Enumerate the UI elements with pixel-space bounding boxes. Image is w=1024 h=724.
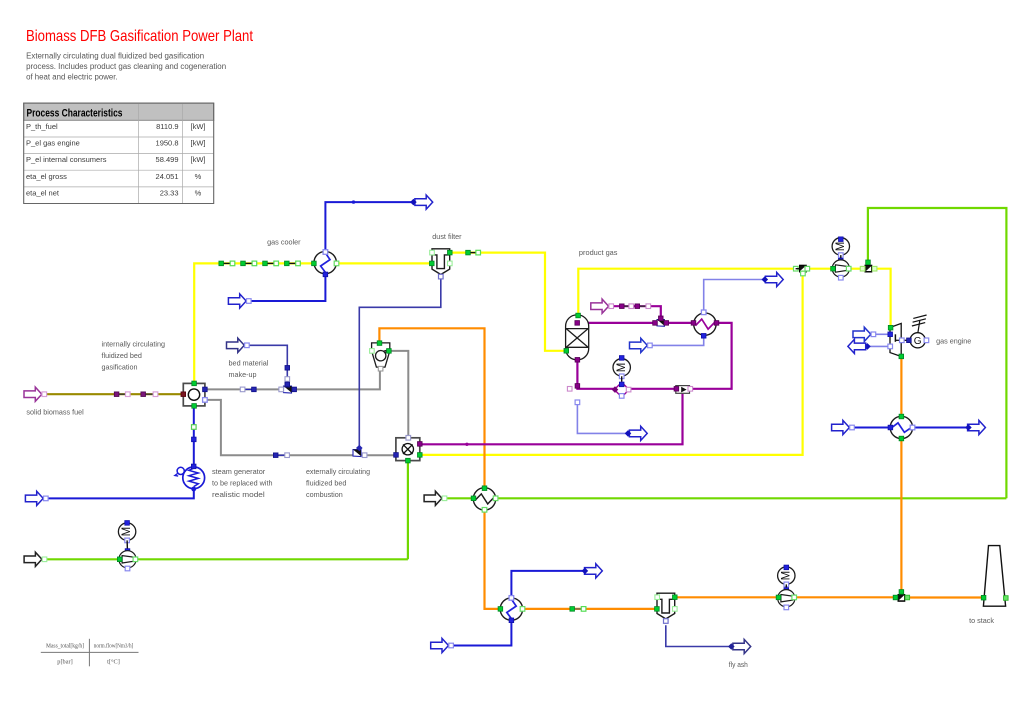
product gas splitter [794, 265, 810, 276]
svg-text:fluidized bed: fluidized bed [306, 479, 346, 488]
svg-text:externally circulating: externally circulating [306, 467, 370, 476]
wire filter1 fines to combustor mixer [359, 279, 441, 449]
wire secondary air through hx1 [444, 497, 1007, 499]
steam generator [175, 464, 205, 491]
flue gas fan with motor M [776, 565, 796, 610]
generator grid symbol [918, 321, 920, 333]
dust filter F1 [432, 249, 450, 275]
cyclone [372, 343, 390, 367]
wire: filter fines navy net [247, 279, 729, 647]
wire filter2 fly ash [666, 625, 729, 646]
arrow: hx3 water inlet [832, 420, 855, 434]
gasifier (internally circulating fluidized bed) [181, 381, 207, 408]
arrow: scrubber hx cooling water outlet [762, 272, 784, 286]
svg-text:realistic model: realistic model [212, 490, 265, 499]
wire gasifier to combustor mixer [205, 400, 396, 455]
arrow: hx2 steam outlet [582, 564, 603, 578]
svg-text:make-up: make-up [229, 370, 257, 379]
wire: water/steam bright blue net [43, 200, 967, 645]
svg-text:M: M [780, 571, 792, 581]
wire scrubber top to compressor row [578, 269, 799, 315]
primary air fan with motor M [117, 521, 137, 571]
wire hx3 water out [913, 427, 968, 429]
arrow: engine jacket water outlet (points left) [848, 339, 871, 353]
stream markers on bed material lines [240, 387, 289, 457]
wire splitter to compressor [807, 268, 832, 270]
arrow: feedwater inlet [25, 491, 48, 505]
svg-text:bed material: bed material [229, 359, 269, 368]
wire mixer to gas engine [873, 269, 891, 328]
bed make-up junction mixer [279, 383, 297, 394]
svg-text:fly ash: fly ash [729, 660, 748, 669]
waypoint dot [465, 443, 468, 446]
wire waste water out [577, 403, 626, 434]
svg-text:Biomass DFB Gasification Power: Biomass DFB Gasification Power Plant [26, 28, 253, 45]
arrow: fly ash outlet [728, 639, 751, 653]
wire junction to stack [905, 596, 983, 598]
arrow: bed material make-up inlet [227, 338, 250, 352]
wire cyclone to combustor top [389, 351, 408, 438]
hx3 engine exhaust cooler [890, 416, 912, 438]
gas cooler HX [314, 251, 336, 273]
wire pump to splitter [629, 388, 675, 390]
dust filter F2 [657, 593, 675, 619]
svg-text:p[bar]: p[bar] [57, 659, 72, 666]
svg-text:of heat and electric power.: of heat and electric power. [26, 73, 118, 82]
wire: bed material gray net [205, 351, 408, 455]
wire engine jacket out [867, 345, 890, 347]
svg-text:gas engine: gas engine [936, 337, 971, 346]
arrow: wash water make-up inlet [591, 299, 614, 313]
svg-text:product gas: product gas [579, 248, 618, 257]
svg-text:steam generator: steam generator [212, 467, 266, 476]
stream markers on make-up riser [285, 366, 290, 387]
wire recycle branch down [421, 272, 803, 455]
wire filter2 to flue junction [675, 596, 897, 598]
wire scrubber hx cooling out [704, 280, 764, 313]
wire splitter loop up to hx [690, 323, 732, 389]
arrow: hx2 water inlet [431, 638, 454, 652]
description paragraph [26, 52, 226, 82]
wire gasifier top riser [194, 263, 314, 383]
svg-text:58.499: 58.499 [156, 155, 179, 164]
scrubber make-up mixer [653, 316, 669, 326]
stream markers on flue gas line [570, 607, 586, 612]
svg-text:to stack: to stack [969, 616, 994, 625]
wire steam to gasifier [193, 406, 195, 467]
svg-text:combustion: combustion [306, 490, 343, 499]
wire engine jacket in [875, 333, 890, 335]
wire hx to mixer to scrubber [577, 322, 693, 324]
wire air right riser [868, 208, 1007, 498]
svg-text:fluidized bed: fluidized bed [102, 351, 142, 360]
svg-text:t[°C]: t[°C] [107, 659, 120, 666]
wire blowdown to combustor [421, 394, 683, 445]
arrow: solid biomass fuel inlet [24, 387, 47, 401]
svg-text:internally circulating: internally circulating [102, 340, 166, 349]
wire hx2 steam out [511, 571, 584, 596]
combustor inlet mixer [353, 445, 367, 458]
wire primary air to combustor [42, 558, 408, 560]
wire cyclone bottom to gasifier [205, 370, 380, 390]
wire bed make-up [247, 345, 287, 386]
arrow: waste water outlet [625, 426, 648, 440]
wire: flue gas orange net [379, 328, 982, 609]
svg-text:gas cooler: gas cooler [267, 237, 301, 246]
svg-text:24.051: 24.051 [156, 172, 179, 181]
scrubber water HX [694, 313, 716, 335]
wire scrubber bottom to pump [577, 360, 614, 389]
wire engine exhaust down [900, 357, 902, 594]
wire dust filter to scrubber [451, 253, 566, 351]
scrubber vessel [566, 315, 589, 360]
stream markers on biomass line [114, 392, 158, 397]
wire hx1 down to hx2 [485, 510, 500, 609]
hx1 air preheater [473, 488, 495, 510]
hx2 flue gas cooler [500, 598, 522, 620]
svg-text:M: M [121, 527, 133, 537]
wire make-up water [611, 306, 661, 319]
wire scrubber hx cooling in [650, 336, 704, 345]
engine feed mixer junction [860, 260, 877, 272]
table: Process Characteristics [24, 103, 214, 203]
svg-text:Mass_total[kg/h]: Mass_total[kg/h] [46, 643, 84, 650]
stream markers on yellow main line [219, 250, 481, 265]
svg-text:solid biomass fuel: solid biomass fuel [26, 408, 84, 417]
svg-text:Externally circulating dual fl: Externally circulating dual fluidized be… [26, 52, 204, 61]
wire: biomass olive [44, 393, 183, 395]
wire gas cooler to dust filter [337, 262, 431, 264]
stream markers on wash water line [620, 304, 651, 309]
wire hx2 to dust filter 2 [523, 608, 657, 610]
svg-text:process. Includes product gas: process. Includes product gas cleaning a… [26, 62, 226, 71]
svg-text:M: M [835, 242, 847, 252]
svg-text:M: M [616, 363, 628, 373]
product gas compressor with motor M [831, 237, 851, 280]
svg-text:P_el gas engine: P_el gas engine [26, 139, 80, 148]
flue junction to stack [893, 590, 909, 602]
svg-text:[kW]: [kW] [191, 139, 206, 148]
arrow: gas cooler water inlet [228, 294, 251, 308]
wire combustor air riser [407, 461, 409, 560]
wire: scrubber water purple net [421, 306, 732, 446]
svg-text:P_el internal consumers: P_el internal consumers [26, 155, 107, 164]
wire: air green net [42, 208, 1007, 559]
wire cyclone to hx1 [379, 328, 484, 487]
svg-text:%: % [195, 172, 202, 181]
svg-text:[kW]: [kW] [191, 155, 206, 164]
wire hx2 water in [452, 621, 511, 646]
arrow: primary air inlet [24, 552, 47, 566]
combustor (externally circulating fluidized bed) [394, 436, 422, 463]
svg-text:eta_el net: eta_el net [26, 189, 60, 198]
svg-text:[kW]: [kW] [191, 122, 206, 131]
svg-text:8110.9: 8110.9 [156, 122, 178, 131]
svg-text:norm.flow[Nm3/h]: norm.flow[Nm3/h] [94, 643, 134, 650]
wire: cooling water light blue net [577, 280, 890, 434]
svg-text:%: % [195, 189, 202, 198]
wire hx3 water in [852, 427, 890, 429]
arrow: engine jacket water inlet [853, 327, 876, 341]
wire compressor to engine mixer [849, 268, 864, 270]
scrubber splitter [674, 386, 692, 394]
svg-text:23.33: 23.33 [160, 189, 179, 198]
svg-text:P_th_fuel: P_th_fuel [26, 122, 58, 131]
svg-text:gasification: gasification [102, 363, 138, 372]
wire gas cooler water in [249, 275, 326, 302]
svg-text:to be replaced with: to be replaced with [212, 479, 273, 488]
svg-text:dust filter: dust filter [432, 232, 462, 241]
legend cross table [41, 639, 139, 667]
scrubber pump with motor M [612, 356, 631, 399]
svg-text:Process Characteristics: Process Characteristics [27, 107, 123, 119]
svg-text:eta_el gross: eta_el gross [26, 172, 67, 181]
wire feedwater to steam generator [43, 489, 193, 498]
diagram text labels [26, 232, 994, 669]
arrow: scrubber hx cooling water inlet [630, 338, 653, 352]
svg-text:1950.8: 1950.8 [156, 139, 179, 148]
stream markers on steam riser [192, 425, 197, 442]
stack chimney [981, 546, 1008, 607]
gas engine [888, 315, 929, 359]
arrow: secondary air inlet [424, 491, 447, 505]
arrow: gas cooler steam outlet [410, 195, 433, 209]
wire: product gas yellow net [194, 253, 890, 455]
wire gas cooler steam out [325, 202, 413, 251]
svg-text:G: G [914, 336, 922, 347]
arrow: hx3 water outlet [965, 420, 985, 434]
